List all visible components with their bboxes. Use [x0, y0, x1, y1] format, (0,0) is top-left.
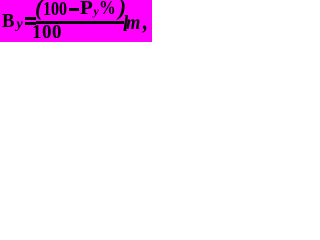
denominator 100 [32, 31, 62, 33]
symbol B [2, 20, 14, 22]
symbol P [80, 7, 93, 9]
factor lm [123, 23, 128, 25]
numerator 100 [43, 8, 67, 10]
subscript y of P [94, 10, 99, 12]
minus sign [69, 8, 79, 11]
equals sign bottom bar [25, 22, 36, 25]
subscript y of B [17, 24, 23, 26]
percent sign [99, 7, 116, 9]
open paren [35, 7, 43, 9]
factor m [126, 22, 140, 24]
fraction bar [36, 21, 124, 24]
equals sign top bar [25, 17, 36, 20]
comma [142, 21, 147, 23]
close paren [119, 7, 127, 9]
